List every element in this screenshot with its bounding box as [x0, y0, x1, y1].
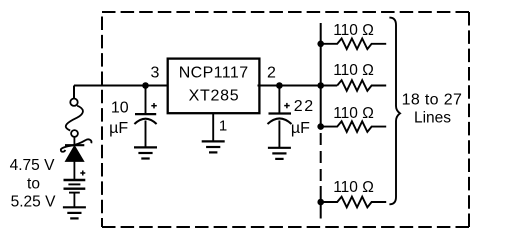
ground (C2) [268, 148, 291, 159]
svg-text:XT285: XT285 [189, 88, 240, 105]
wire: connector to diode [73, 137, 75, 146]
svg-text:22: 22 [294, 98, 315, 115]
ground (U1 pin 1) [202, 141, 225, 152]
capacitor C2 tap wire [278, 86, 280, 113]
svg-text:1: 1 [219, 118, 227, 135]
svg-text:5.25 V: 5.25 V [11, 194, 56, 211]
bus: vertical distribution line (solid top) [320, 23, 322, 129]
svg-text:110 Ω: 110 Ω [333, 62, 374, 79]
resistor R1 [321, 39, 387, 50]
node: bus row1 [317, 41, 324, 48]
capacitor C2 plus [284, 103, 290, 108]
resistor R4 [321, 197, 387, 208]
capacitor C2 curved plate [268, 118, 292, 124]
connector J1 top circle [70, 99, 77, 106]
wire: diode to battery [73, 161, 75, 179]
wire: battery to ground [73, 193, 75, 207]
node: bus tap row2 [317, 82, 324, 89]
svg-text:2: 2 [267, 64, 276, 81]
battery BT1 plates [64, 180, 86, 193]
capacitor C1 top plate [135, 113, 156, 115]
node: bus row4 [317, 199, 324, 206]
bus: dashed continuation segment [320, 129, 322, 186]
capacitor C1 curved plate [134, 119, 156, 124]
ground (battery) [63, 207, 86, 218]
capacitor C2 top plate [269, 112, 292, 114]
wire: input rail from connector to regulator pin 3 [74, 85, 169, 87]
capacitor C1 plus [151, 103, 157, 108]
ground (C1) [134, 147, 157, 158]
svg-text:110 Ω: 110 Ω [333, 22, 374, 39]
wire: C2 to ground [278, 121, 280, 148]
dashed enclosure border [102, 12, 469, 227]
twisted-wire swash over diode [61, 139, 92, 151]
svg-text:3: 3 [151, 64, 160, 81]
svg-text:10: 10 [111, 99, 129, 116]
wire: output rail pin2 to R2 [258, 85, 338, 87]
regulator U1 box [168, 59, 260, 114]
connector J1 twisted lead (S-curve) [66, 106, 83, 131]
battery BT1 plus sign [80, 171, 85, 176]
diode D1 triangle [66, 146, 84, 161]
diode D1 cathode bar [65, 144, 84, 146]
resistor R2 [337, 80, 386, 91]
wire: drop from rail to connector J1 [73, 86, 75, 99]
svg-text:to: to [27, 175, 40, 192]
svg-text:µF: µF [109, 120, 128, 137]
capacitor C1 tap wire [145, 86, 147, 114]
svg-text:Lines: Lines [414, 110, 451, 127]
svg-text:110 Ω: 110 Ω [333, 179, 374, 196]
node: bus row3 [317, 123, 324, 130]
node: output cap tap [276, 82, 283, 89]
svg-text:110 Ω: 110 Ω [333, 105, 374, 122]
bus: solid bottom [320, 186, 322, 219]
svg-text:µF: µF [291, 120, 310, 137]
wire: pin 1 to ground [212, 114, 214, 142]
resistor R3 [321, 121, 387, 132]
brace grouping resistor lines [389, 18, 400, 205]
node: input cap tap [142, 82, 149, 89]
svg-text:18 to 27: 18 to 27 [402, 91, 463, 108]
svg-text:NCP1117: NCP1117 [179, 65, 249, 82]
wire: C1 to ground [145, 121, 147, 148]
connector J1 bottom circle [71, 130, 78, 137]
svg-text:4.75 V: 4.75 V [10, 157, 55, 174]
